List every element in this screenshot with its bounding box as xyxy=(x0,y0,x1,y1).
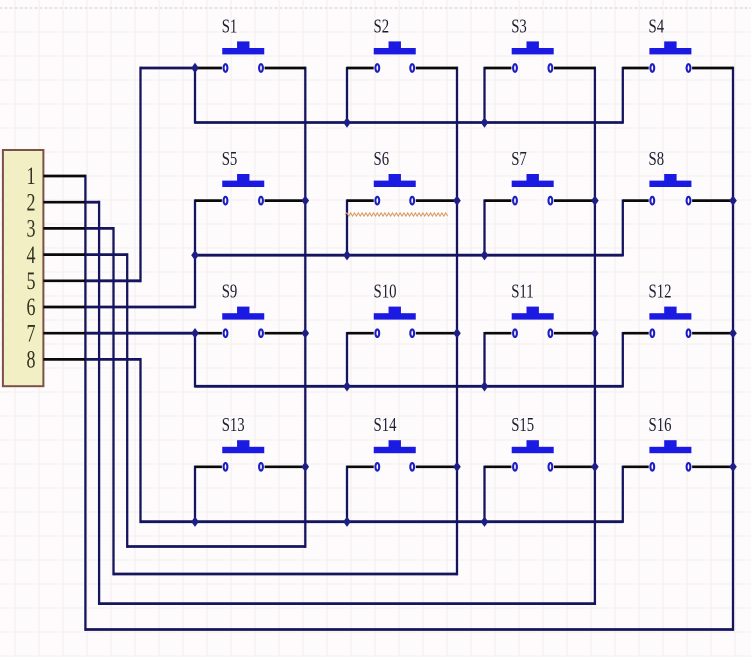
pushbutton S6 xyxy=(347,147,457,205)
wire row1 bus xyxy=(195,121,623,124)
wire S3 left riser xyxy=(483,67,485,124)
wire bottom link pin1-col4 xyxy=(85,628,733,631)
connector pin 1 stub xyxy=(43,175,85,178)
wire pin5 top link xyxy=(141,67,196,70)
svg-text:4: 4 xyxy=(27,241,36,269)
wire S15 left riser xyxy=(483,466,485,523)
wire S1 left riser xyxy=(194,67,196,124)
pushbutton S13 xyxy=(195,413,305,471)
junction col4 / row4 right pin xyxy=(729,462,737,472)
junction row3 bus / S10 riser xyxy=(343,381,351,391)
wire bottom link pin4-col1 xyxy=(127,545,305,548)
junction row2 bus / S7 riser xyxy=(481,250,489,260)
wire S4 left riser xyxy=(622,67,624,124)
pushbutton S14 xyxy=(347,413,457,471)
svg-text:S2: S2 xyxy=(374,14,390,37)
wire S2 left riser xyxy=(346,67,348,124)
junction row4 bus / S15 riser xyxy=(481,517,489,527)
wire S13 left riser xyxy=(194,466,196,523)
wire bottom link pin3-col2 xyxy=(114,573,458,576)
junction col3 / row4 right pin xyxy=(591,462,599,472)
svg-text:1: 1 xyxy=(27,162,36,190)
pushbutton S11 xyxy=(485,279,595,337)
wire pin8 riser xyxy=(139,358,141,523)
svg-text:S3: S3 xyxy=(511,14,527,37)
connector J1 box xyxy=(3,150,44,386)
junction row1 bus / S2 riser xyxy=(343,117,351,127)
junction row3 bus / S11 riser xyxy=(481,381,489,391)
svg-text:S8: S8 xyxy=(649,147,665,170)
junction col4 / row2 right pin xyxy=(729,195,737,205)
pushbutton S5 xyxy=(195,147,305,205)
junction row1 net / S1 left xyxy=(191,63,199,73)
svg-text:S6: S6 xyxy=(374,147,390,170)
wire column2 vertical xyxy=(456,67,458,576)
junction row4 bus / S13 riser xyxy=(191,517,199,527)
junction col2 / row4 right pin xyxy=(453,462,461,472)
svg-text:S13: S13 xyxy=(222,413,245,436)
wire pin1 riser xyxy=(84,175,86,631)
connector pin 2 stub xyxy=(43,201,85,204)
wire row3 bus xyxy=(195,385,623,388)
pushbutton S2 xyxy=(347,14,457,72)
connector pin 4 stub xyxy=(43,253,85,256)
svg-text:S12: S12 xyxy=(649,279,672,302)
wire pin3 riser xyxy=(112,227,114,575)
junction row3 net / S9 left xyxy=(191,328,199,338)
junction col2 / row3 right pin xyxy=(453,328,461,338)
wire S7 left riser xyxy=(483,199,485,256)
junction col3 / row2 right pin xyxy=(591,195,599,205)
wire S11 left riser xyxy=(483,332,485,388)
highlight squiggle under S6 lead xyxy=(345,213,448,216)
svg-text:S16: S16 xyxy=(649,413,672,436)
pushbutton S1 xyxy=(195,14,305,72)
svg-text:3: 3 xyxy=(27,215,36,243)
wire S5 left riser xyxy=(194,199,196,256)
svg-text:S14: S14 xyxy=(374,413,397,436)
wire pin8 horizontal xyxy=(84,358,141,361)
svg-text:S7: S7 xyxy=(511,147,527,170)
junction row1 bus / S3 riser xyxy=(481,117,489,127)
svg-text:5: 5 xyxy=(27,267,36,295)
wire S6 left riser xyxy=(346,199,348,256)
junction col1 / row3 right pin xyxy=(302,328,310,338)
svg-text:S10: S10 xyxy=(374,279,397,302)
junction row2 bus / S6 riser xyxy=(343,250,351,260)
pushbutton S3 xyxy=(485,14,595,72)
connector pin 5 stub xyxy=(43,279,85,282)
pushbutton S16 xyxy=(623,413,733,471)
connector pin 3 stub xyxy=(43,227,85,230)
svg-text:S11: S11 xyxy=(511,279,533,302)
svg-text:S5: S5 xyxy=(222,147,238,170)
wire row2 bus xyxy=(195,254,623,257)
svg-text:2: 2 xyxy=(27,189,36,217)
wire pin5 horizontal xyxy=(84,279,141,282)
junction row2 bus / S5 riser xyxy=(191,250,199,260)
junction col1 / row4 right pin xyxy=(302,462,310,472)
wire S16 left riser xyxy=(622,466,624,523)
svg-text:8: 8 xyxy=(27,346,36,374)
wire bottom link pin2-col3 xyxy=(99,602,595,605)
connector pin 8 stub xyxy=(43,358,85,361)
wire pin3 horizontal xyxy=(84,227,114,230)
junction col3 / row3 right pin xyxy=(591,328,599,338)
wire pin2 riser xyxy=(98,201,100,605)
svg-text:7: 7 xyxy=(27,320,36,348)
pushbutton S15 xyxy=(485,413,595,471)
wire pin4 riser xyxy=(126,253,128,548)
pushbutton S9 xyxy=(195,279,305,337)
pushbutton S4 xyxy=(623,14,733,72)
pushbutton S8 xyxy=(623,147,733,205)
wire column3 vertical xyxy=(594,67,596,605)
wire column4 vertical xyxy=(732,67,734,631)
svg-text:S15: S15 xyxy=(511,413,534,436)
wire pin2 horizontal xyxy=(84,201,99,204)
connector pin 7 stub xyxy=(43,332,85,335)
wire S12 left riser xyxy=(622,332,624,388)
svg-text:S9: S9 xyxy=(222,279,238,302)
junction col2 / row2 right pin xyxy=(453,195,461,205)
wire S5 riser to pin6 xyxy=(194,255,196,308)
wire S8 left riser xyxy=(622,199,624,256)
wire S9 left riser xyxy=(194,332,196,388)
wire S14 left riser xyxy=(346,466,348,523)
wire pin7 horizontal xyxy=(84,332,195,335)
junction row4 bus / S14 riser xyxy=(343,517,351,527)
connector pin 6 stub xyxy=(43,306,85,309)
wire pin4 horizontal xyxy=(84,253,127,256)
junction col4 / row3 right pin xyxy=(729,328,737,338)
junction col1 / row2 right pin xyxy=(302,195,310,205)
wire pin5 riser xyxy=(139,67,141,283)
svg-text:S1: S1 xyxy=(222,14,238,37)
pushbutton S12 xyxy=(623,279,733,337)
wire pin6 horizontal xyxy=(84,306,195,309)
wire row4 bus xyxy=(141,520,623,523)
svg-text:S4: S4 xyxy=(649,14,665,37)
wire column1 vertical xyxy=(304,67,306,548)
pushbutton S7 xyxy=(485,147,595,205)
pushbutton S10 xyxy=(347,279,457,337)
svg-text:6: 6 xyxy=(27,293,36,321)
wire S10 left riser xyxy=(346,332,348,388)
